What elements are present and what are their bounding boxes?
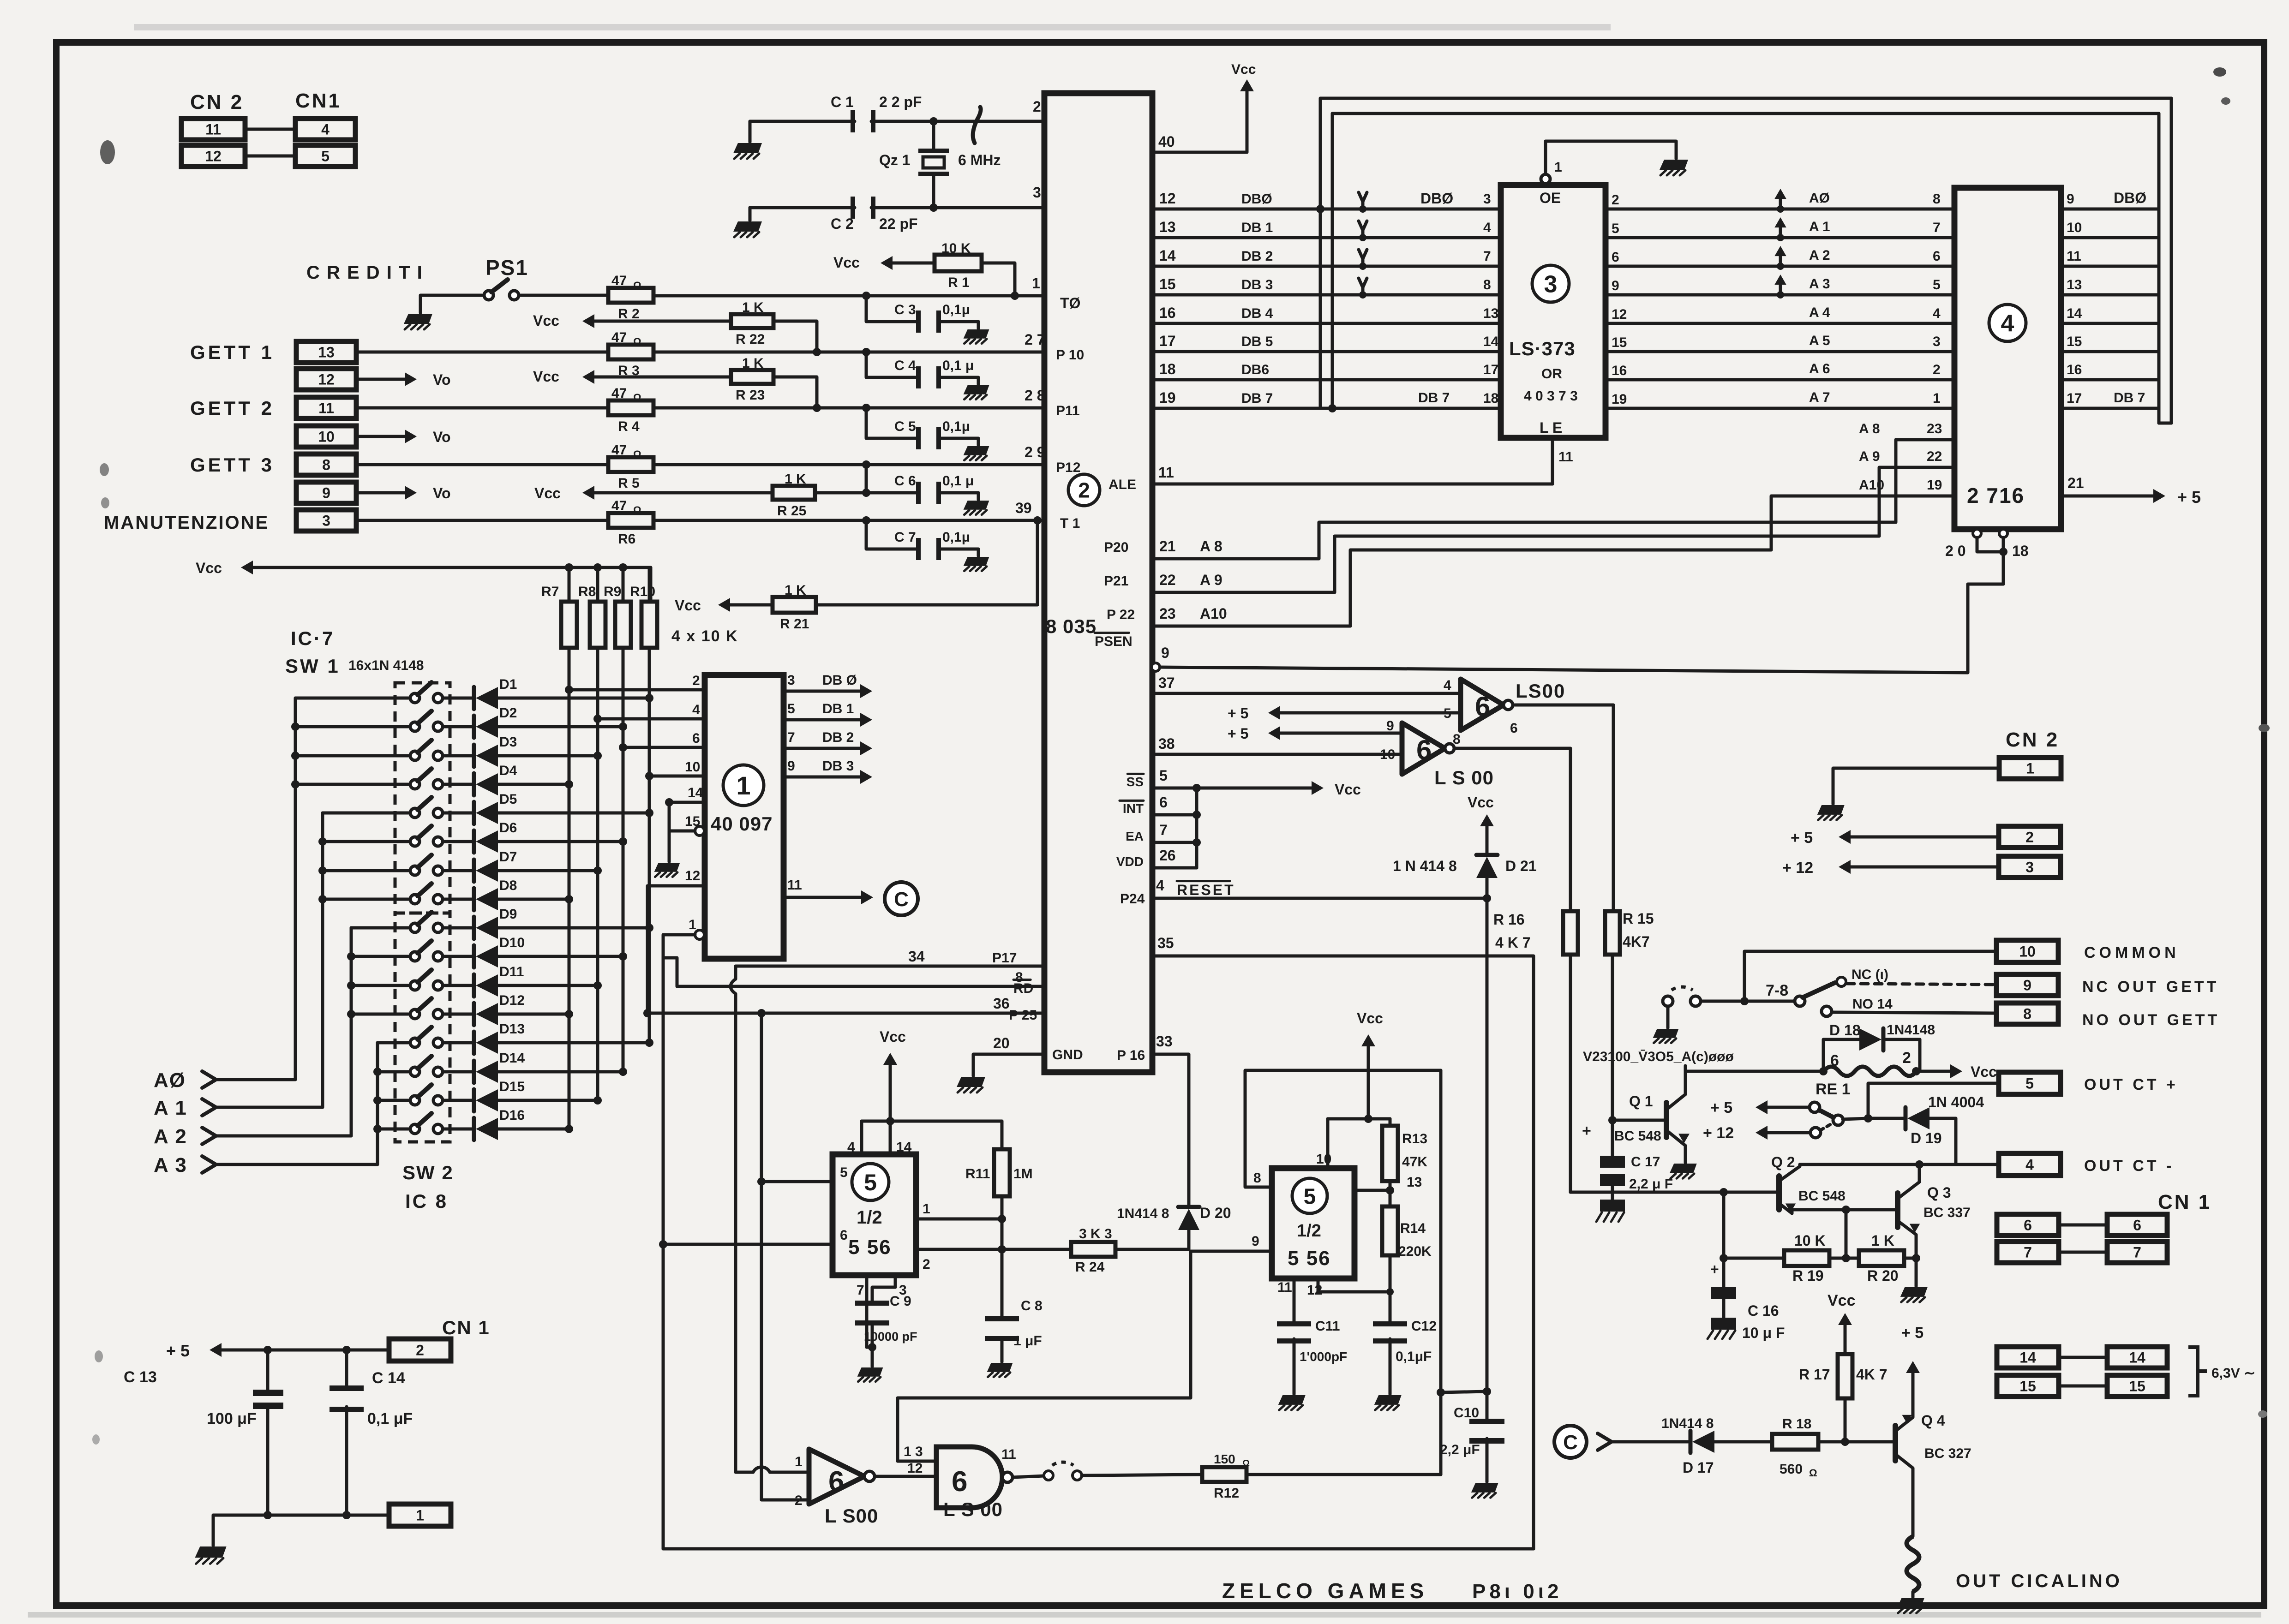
svg-text:DB 1: DB 1	[822, 701, 854, 716]
ground C3	[964, 329, 989, 339]
node 556-1 pin2	[998, 1245, 1006, 1254]
bottom ground rail (C13/C14)	[213, 1514, 389, 1517]
resistor R3 47ohm	[608, 345, 653, 359]
svg-text:9: 9	[1161, 645, 1169, 661]
wire Q4 emitter to +5	[1906, 1361, 1920, 1373]
svg-text:10 μ F: 10 μ F	[1742, 1325, 1785, 1341]
svg-text:19: 19	[1159, 389, 1176, 406]
wire A5 row (LS373 pin 15 to 2716 pin 3)	[1606, 350, 1954, 353]
svg-text:P11: P11	[1056, 403, 1080, 418]
svg-text:C 14: C 14	[372, 1369, 405, 1387]
wire C to D17	[1612, 1440, 1688, 1444]
switch SW2 pole 9	[410, 923, 419, 932]
svg-text:DB 3: DB 3	[1241, 277, 1273, 293]
wire switch to diode D4	[443, 783, 474, 786]
connector box 4 (OUT CT-)	[1999, 1153, 2061, 1176]
wire R19 to R20	[1829, 1257, 1859, 1260]
svg-text:18: 18	[1159, 361, 1176, 377]
capacitor C11 1000pF	[1277, 1321, 1311, 1326]
svg-text:13: 13	[1483, 306, 1498, 321]
wire diode D13 to column	[497, 1041, 649, 1045]
svg-text:A 2: A 2	[1809, 248, 1830, 263]
node Q2 emitter-R19 riser	[1842, 1206, 1850, 1214]
svg-text:R14: R14	[1400, 1221, 1426, 1236]
switch SW1 pole 7	[410, 866, 419, 875]
wire P16 pin33 to D20	[1152, 1054, 1189, 1205]
svg-text:P21: P21	[1104, 573, 1128, 589]
diode D2 1N4148	[472, 716, 476, 738]
scan blob left border a	[100, 140, 115, 164]
NC contact circle	[1837, 977, 1846, 986]
wire A2 row (LS373 pin 6 to 2716 pin 6)	[1606, 265, 1954, 268]
svg-text:R 1: R 1	[948, 275, 970, 290]
svg-text:3: 3	[322, 513, 330, 529]
ground C11	[1278, 1395, 1306, 1405]
node contact common	[1740, 997, 1749, 1005]
ground C9	[871, 1347, 874, 1367]
svg-text:D7: D7	[499, 849, 517, 865]
node P10-C4	[862, 348, 870, 356]
svg-text:EA: EA	[1126, 829, 1144, 843]
resistor R9 10K	[619, 563, 627, 572]
svg-text:P 22: P 22	[1107, 607, 1135, 622]
svg-text:2 2 pF: 2 2 pF	[879, 94, 922, 110]
connector CN2 pin 2	[1999, 826, 2061, 848]
svg-text:17: 17	[1159, 333, 1176, 349]
connector CN1 pin 2 (bottom)	[389, 1339, 451, 1361]
wire pin35 row (P24 sense)	[1152, 956, 1534, 1549]
svg-text:47: 47	[611, 386, 627, 401]
ground at PS1	[404, 314, 432, 324]
transistor Q1 BC548	[1664, 1103, 1669, 1137]
gate A LS00 (as inverter) U6a	[1461, 679, 1504, 730]
svg-text:33: 33	[1156, 1033, 1173, 1050]
wire 40097 input pin 4	[598, 717, 705, 721]
svg-text:C 8: C 8	[1021, 1298, 1043, 1314]
wire A6 row (LS373 pin 16 to 2716 pin 2)	[1606, 378, 1954, 382]
svg-text:2: 2	[1612, 192, 1619, 208]
node D11 column	[593, 981, 602, 990]
wire CN2-1 to ground	[1833, 768, 1999, 804]
wire R6 to T1 pin39	[653, 519, 1044, 522]
svg-text:1 K: 1 K	[742, 300, 764, 315]
svg-text:D12: D12	[499, 993, 525, 1008]
wire A4 row (LS373 pin 12 to 2716 pin 4)	[1606, 322, 1954, 325]
40097 pin 12 wire	[647, 886, 705, 1013]
node D10 column	[619, 952, 627, 961]
wire CE to PSEN	[1158, 552, 2003, 673]
svg-text:PS1: PS1	[485, 256, 528, 280]
svg-text:10 K: 10 K	[941, 241, 971, 256]
connector box 8 (GETT3)	[296, 454, 356, 475]
dashed NC wire to box 9	[1847, 984, 1996, 985]
svg-text:C 2: C 2	[831, 215, 854, 232]
svg-text:D13: D13	[499, 1021, 525, 1037]
svg-text:5: 5	[864, 1170, 877, 1195]
svg-text:19: 19	[1927, 478, 1942, 493]
wire 40097 output DB 1 pin 5	[784, 718, 867, 722]
svg-text:0,1μ: 0,1μ	[942, 302, 970, 317]
svg-text:2: 2	[1933, 362, 1941, 377]
svg-text:5 56: 5 56	[1288, 1247, 1331, 1270]
bus right vertical inner	[2157, 113, 2161, 423]
ground contact 7-8	[1666, 1006, 1670, 1028]
node P10-R22	[813, 348, 821, 356]
node 556-1 pin1	[998, 1215, 1006, 1223]
svg-text:IC·7: IC·7	[291, 627, 335, 649]
svg-text:11: 11	[2067, 249, 2081, 264]
svg-text:11: 11	[1558, 449, 1573, 465]
wire switch row D16	[378, 1128, 410, 1131]
svg-text:R 15: R 15	[1623, 910, 1654, 927]
scanner noise streak top	[134, 24, 1611, 30]
svg-text:+ 5: + 5	[1791, 829, 1813, 847]
resistor R13 47K	[1389, 1119, 1392, 1126]
NAND output wire	[1013, 1476, 1044, 1477]
svg-text:Ω: Ω	[633, 336, 641, 347]
ground C8	[987, 1363, 1013, 1372]
resistor R24 3K3	[1071, 1242, 1115, 1257]
svg-text:6: 6	[1475, 691, 1490, 722]
wire 40097 input pin 6	[623, 746, 705, 749]
svg-text:LS00: LS00	[1516, 680, 1565, 702]
resistor R15 4K7	[1605, 911, 1620, 955]
wire switch to diode D7	[443, 869, 474, 872]
svg-text:C 9: C 9	[890, 1294, 911, 1309]
node Q2 base / R19	[1720, 1188, 1728, 1196]
svg-text:11: 11	[1001, 1447, 1016, 1462]
svg-text:1 3: 1 3	[904, 1444, 923, 1459]
wire DB7 out row (2716 pin 17)	[2061, 407, 2159, 410]
svg-text:14: 14	[1159, 247, 1176, 264]
wire +12 to selector	[1759, 1131, 1810, 1134]
node A3 row D14	[373, 1068, 382, 1076]
wire P17 pin34 to inverter input 1	[736, 966, 1044, 979]
svg-text:2: 2	[416, 1342, 424, 1359]
wire ground to PS1	[420, 295, 484, 313]
svg-text:A 3: A 3	[154, 1154, 187, 1176]
wire R7 to column	[568, 648, 571, 1129]
svg-text:1N414 8: 1N414 8	[1117, 1206, 1169, 1221]
wire DB0 out row (2716 pin 9)	[2061, 208, 2159, 211]
svg-text:36: 36	[993, 995, 1010, 1012]
wire A1 row (LS373 pin 5 to 2716 pin 7)	[1606, 236, 1954, 239]
wire switch to diode D15	[443, 1099, 474, 1102]
svg-text:47: 47	[611, 273, 627, 288]
capacitor C10 2.2uF	[1486, 1391, 1489, 1421]
svg-text:SW 2: SW 2	[402, 1162, 454, 1183]
svg-text:R 18: R 18	[1782, 1416, 1811, 1432]
svg-text:A 6: A 6	[1809, 361, 1830, 376]
connector box 3 (MANUTENZIONE)	[296, 510, 356, 531]
svg-text:C 5: C 5	[894, 419, 916, 434]
svg-text:22: 22	[1927, 449, 1942, 464]
wire switch to diode D11	[443, 984, 474, 987]
svg-text:1: 1	[416, 1507, 424, 1524]
svg-text:100 μF: 100 μF	[207, 1410, 257, 1427]
wire box8 to R5	[356, 463, 608, 466]
IC U2 8035 microcontroller	[1044, 93, 1152, 1072]
bus right bottom joint	[2159, 422, 2171, 425]
svg-text:A 9: A 9	[1200, 572, 1222, 588]
svg-text:IC 8: IC 8	[405, 1190, 448, 1212]
svg-text:4: 4	[2025, 1157, 2034, 1173]
svg-text:1N 4004: 1N 4004	[1928, 1094, 1984, 1111]
svg-text:A 8: A 8	[1200, 538, 1222, 555]
wire diode D7 to column	[497, 869, 598, 872]
wire R5 to P12 pin29	[653, 463, 1044, 466]
jumper contacts (NAND out)	[1044, 1471, 1053, 1480]
wire R4 to P11 pin28	[653, 406, 1044, 410]
wire switch row D7	[323, 869, 410, 872]
svg-text:Qz 1: Qz 1	[879, 152, 911, 168]
wire switch to diode D10	[443, 955, 474, 958]
svg-text:15: 15	[2019, 1378, 2036, 1395]
svg-text:1 μF: 1 μF	[1013, 1333, 1042, 1349]
NO contact	[1822, 1006, 1832, 1016]
wire R15 to Q1 base	[1611, 955, 1614, 1120]
svg-text:P20: P20	[1104, 540, 1128, 555]
svg-text:D1: D1	[499, 677, 517, 692]
svg-text:13: 13	[1159, 219, 1176, 235]
wire P26 pin37 to gate A input 4	[1152, 692, 1461, 695]
svg-text:9: 9	[1386, 718, 1394, 734]
svg-text:6: 6	[1933, 249, 1941, 264]
diode D1 1N4148	[472, 687, 476, 709]
node A1 row D7	[318, 866, 327, 875]
connector CN2 pin 3	[1999, 856, 2061, 878]
pin 10 stub (556-2)	[1326, 1119, 1330, 1168]
svg-text:DB 4: DB 4	[1241, 306, 1273, 321]
wire R3 to P10 pin27	[653, 351, 1044, 354]
ground C13/C14	[195, 1546, 226, 1558]
diode D14 1N4148	[472, 1061, 476, 1083]
svg-text:P 25: P 25	[1009, 1008, 1037, 1023]
resistor R11 1M	[1001, 1121, 1004, 1149]
wire diode D2 to column	[497, 725, 623, 728]
svg-text:C 7: C 7	[894, 530, 916, 545]
svg-text:DB 7: DB 7	[1418, 390, 1450, 406]
flag arrow A2 to switch matrix	[1779, 250, 1782, 266]
svg-text:R 22: R 22	[736, 332, 765, 347]
svg-text:14: 14	[2019, 1349, 2036, 1366]
capacitor C4 0.1u	[866, 352, 918, 377]
svg-text:16: 16	[1612, 363, 1627, 378]
wire A 8 (8035 pin 21 to 2716 pin 23)	[1152, 440, 1954, 559]
svg-text:+: +	[1710, 1261, 1719, 1278]
svg-text:NC OUT GETT: NC OUT GETT	[2082, 978, 2219, 996]
wire 556-1 pin1	[916, 1218, 1002, 1221]
wire diode D1 to column	[497, 697, 649, 700]
svg-text:GETT 2: GETT 2	[190, 397, 275, 419]
svg-text:4: 4	[1156, 877, 1164, 894]
svg-text:Vcc: Vcc	[1971, 1063, 1997, 1080]
svg-text:5: 5	[2025, 1075, 2034, 1092]
wire pins 20/18 join	[1977, 537, 2003, 552]
svg-text:8: 8	[1453, 732, 1461, 747]
svg-text:11: 11	[205, 121, 221, 138]
svg-text:R 2: R 2	[618, 306, 640, 322]
node D16 column	[565, 1125, 573, 1133]
wire A0 column (switch commons)	[217, 698, 295, 1080]
circled 5 designator (556-2)	[1292, 1178, 1327, 1213]
ground C2	[749, 208, 752, 221]
circled C node (40097 out)	[885, 882, 918, 915]
svg-text:DBØ: DBØ	[1420, 190, 1453, 207]
wire box3 to R6	[356, 519, 608, 522]
wire A 9 (8035 pin 22 to 2716 pin 22)	[1152, 467, 1954, 592]
diode D17 1N4148	[1689, 1431, 1693, 1453]
svg-text:14: 14	[2067, 306, 2082, 321]
svg-text:Vcc: Vcc	[196, 560, 222, 576]
svg-text:7: 7	[2133, 1244, 2141, 1261]
svg-text:R 25: R 25	[777, 503, 806, 519]
svg-text:39: 39	[1015, 500, 1032, 516]
flag arrow A0 to switch matrix	[1779, 192, 1782, 209]
svg-text:Ω: Ω	[633, 504, 641, 516]
svg-text:Vcc: Vcc	[1335, 781, 1361, 798]
svg-text:+ 12: + 12	[1703, 1124, 1734, 1142]
connector CN1 pin 15	[2107, 1375, 2167, 1397]
svg-text:560: 560	[1780, 1462, 1803, 1477]
ground C10	[1471, 1483, 1498, 1493]
resistor R7 10K	[565, 563, 573, 572]
wire CN2-12 to CN1-5	[245, 155, 295, 158]
svg-text:17: 17	[2067, 391, 2082, 406]
node A1 row D6	[318, 837, 327, 846]
resistor R19 10K	[1784, 1250, 1829, 1266]
svg-text:4 x 10 K: 4 x 10 K	[671, 627, 738, 645]
switch SW1 pole 4	[410, 780, 419, 789]
svg-text:6: 6	[1510, 721, 1518, 736]
wire switch to diode D2	[443, 725, 474, 728]
resistor R17 4K7	[1838, 1313, 1852, 1325]
node D13 column	[645, 1039, 653, 1047]
wire A10 (8035 pin 23 to 2716 pin 19)	[1152, 496, 1954, 626]
wire P27 pin38 to gate B input 10	[1152, 753, 1402, 756]
bracket 6.3V	[2188, 1347, 2207, 1396]
resistor R8 10K	[593, 563, 602, 572]
open arrow A1	[202, 1099, 216, 1116]
556-1 pin 3 stub + C9	[872, 1275, 895, 1303]
wire diode D12 to column	[497, 1013, 569, 1016]
svg-text:R 23: R 23	[736, 388, 765, 403]
svg-text:A 1: A 1	[154, 1097, 187, 1119]
diode D20 1N4148	[1178, 1205, 1199, 1209]
wire top rail 556-1	[862, 1120, 1002, 1123]
wire box13 to R3	[356, 351, 608, 354]
svg-text:9: 9	[2067, 191, 2074, 207]
svg-text:R12: R12	[1214, 1486, 1239, 1501]
wire 40097 pin1/RD down (loop left side)	[662, 958, 665, 1549]
wire diode D11 to column	[497, 984, 598, 987]
svg-text:Vo: Vo	[433, 429, 451, 445]
svg-text:Q 2: Q 2	[1771, 1154, 1795, 1170]
svg-text:3: 3	[1933, 334, 1941, 349]
svg-text:V23100_V̄3O5_A(c)øøø: V23100_V̄3O5_A(c)øøø	[1583, 1049, 1734, 1064]
connector box 15 (left)	[1997, 1375, 2059, 1397]
svg-text:A10: A10	[1200, 605, 1227, 622]
node A2 row D11	[347, 981, 355, 990]
node A0 row D4	[291, 780, 300, 788]
wire DB2 out row (2716 pin 11)	[2061, 265, 2159, 268]
svg-text:R13: R13	[1402, 1131, 1427, 1146]
scan blob left border e	[92, 1434, 100, 1445]
svg-text:6: 6	[840, 1228, 848, 1243]
wire RESET pin4 row	[1152, 897, 1487, 900]
wire contact to common node	[1701, 1000, 1795, 1003]
svg-text:12: 12	[205, 148, 222, 165]
wire switch row D15	[378, 1099, 410, 1102]
flag arrow A1 to switch matrix	[1779, 221, 1782, 238]
svg-text:47: 47	[611, 330, 627, 345]
svg-text:47K: 47K	[1402, 1154, 1427, 1170]
scan blob left border c	[101, 497, 109, 508]
wire switch row D13	[378, 1041, 410, 1045]
scan blob left border b	[100, 463, 109, 476]
connector CN1 pin 7	[2107, 1242, 2167, 1263]
40097 pin 11 output to C	[784, 896, 868, 899]
IC U1 40097 buffer	[705, 675, 784, 959]
svg-text:C 4: C 4	[894, 358, 916, 373]
node T0-R1	[1011, 292, 1019, 300]
svg-text:1/2: 1/2	[1297, 1221, 1321, 1241]
wire PS1 to R2	[519, 294, 608, 297]
wire switch row D1	[295, 697, 410, 700]
svg-text:C 1: C 1	[831, 94, 854, 110]
circled 2 designator	[1068, 474, 1100, 506]
svg-text:D9: D9	[499, 907, 517, 922]
wire R14 to 556-2 pin12	[1318, 1278, 1390, 1292]
svg-text:1 K: 1 K	[785, 472, 806, 487]
switch SW2 pole 12	[410, 1009, 419, 1019]
wire C9 ground joint	[867, 1346, 872, 1349]
wire OUT CT- row	[1800, 1163, 1999, 1166]
wire switch row D6	[323, 840, 410, 843]
svg-text:2: 2	[795, 1493, 803, 1508]
svg-text:C 6: C 6	[894, 473, 916, 489]
svg-text:14: 14	[1483, 334, 1499, 349]
connector box 5 (OUT CT+)	[1999, 1072, 2061, 1094]
svg-text:10: 10	[685, 759, 700, 775]
svg-text:Vcc: Vcc	[675, 597, 701, 614]
wire DB5 out row (2716 pin 15)	[2061, 350, 2159, 353]
connector box 13 (GETT1)	[296, 341, 356, 363]
switch SW1 pole 1	[410, 693, 419, 703]
svg-text:BC 337: BC 337	[1923, 1205, 1971, 1220]
diode D15 1N4148	[472, 1089, 476, 1111]
svg-text:1: 1	[736, 771, 750, 800]
wire DB1 out row (2716 pin 10)	[2061, 236, 2159, 239]
scan speck right low	[2258, 1410, 2267, 1418]
svg-text:220K: 220K	[1398, 1244, 1432, 1259]
ground C7	[964, 557, 989, 566]
node DB0 return	[1316, 205, 1324, 213]
svg-text:21: 21	[1159, 538, 1176, 555]
transistor Q2 BC548	[1776, 1176, 1782, 1210]
crystal Qz1 6MHz	[932, 121, 935, 149]
svg-text:+ 5: + 5	[2177, 488, 2201, 507]
scan speck top right a	[2213, 67, 2226, 77]
wire riser to C10 node	[1441, 1391, 1487, 1392]
wire 556-2 pin13	[1354, 1189, 1390, 1192]
pin 7 EA stub	[1152, 841, 1197, 844]
wire DB5 bus row (8035 pin 17 to LS373 pin 14)	[1152, 350, 1501, 353]
wire R25 node to P12 row	[865, 465, 868, 493]
svg-text:Vcc: Vcc	[1231, 62, 1256, 77]
svg-text:DB 1: DB 1	[1241, 220, 1273, 235]
svg-text:15: 15	[2067, 334, 2082, 349]
